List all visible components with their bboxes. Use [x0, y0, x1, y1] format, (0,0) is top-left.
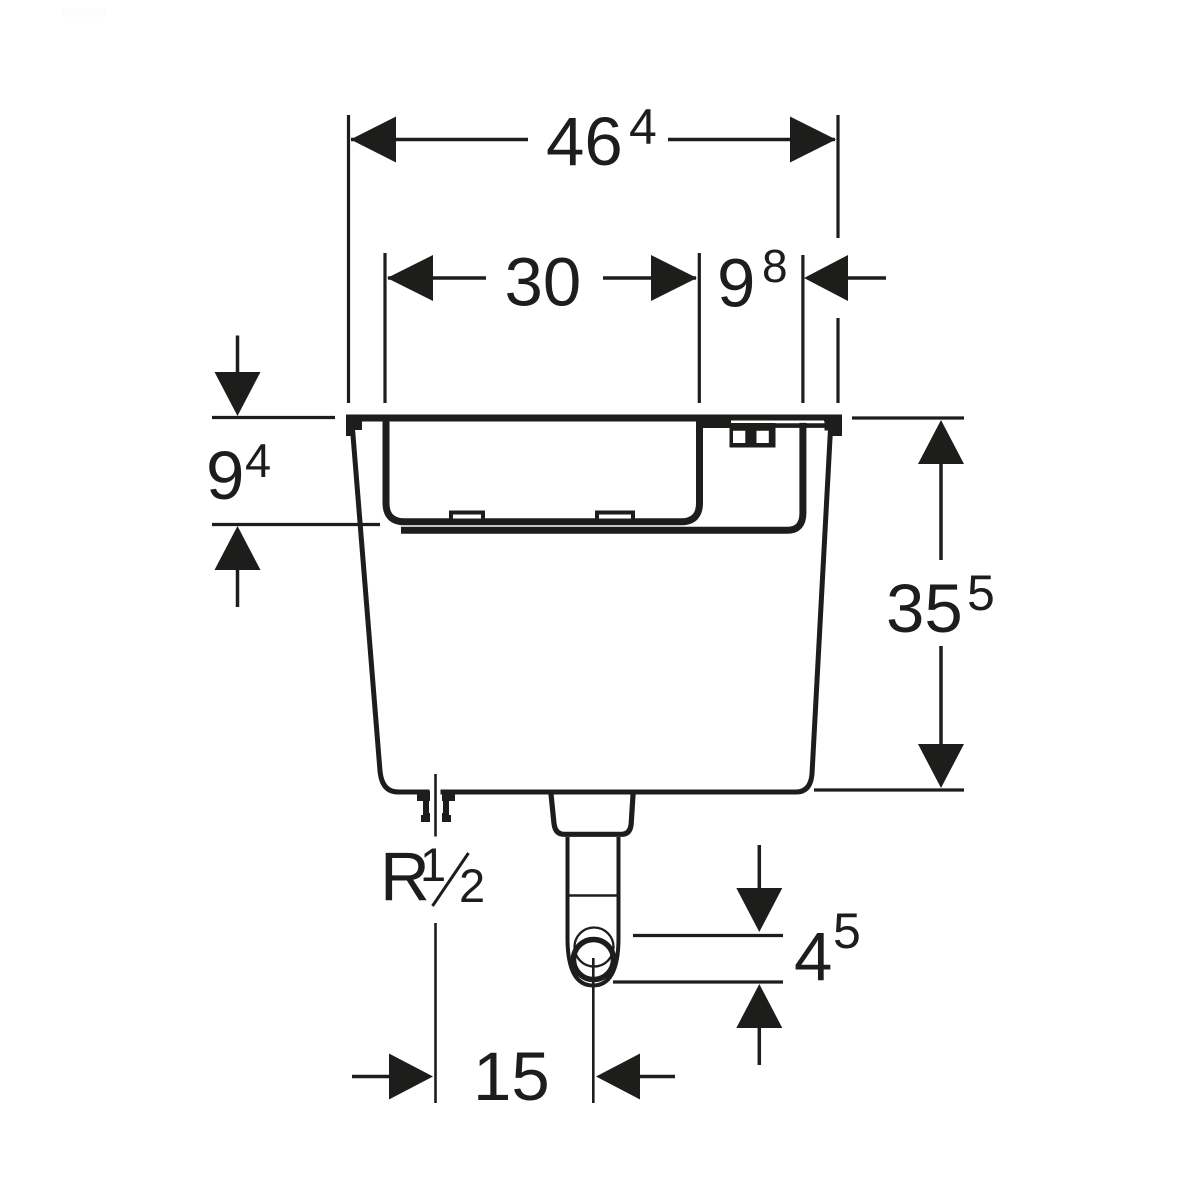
under-lid lower line right: [731, 423, 829, 428]
dimension line 30 left tail: [388, 276, 486, 280]
lid right end cap: [825, 421, 843, 436]
reference line 35.5 top: [852, 416, 964, 419]
slash of R1/2: [433, 853, 469, 906]
arrowhead 9.8 right (pointing left): [804, 255, 848, 301]
dimension line 15 left tail: [352, 1075, 389, 1079]
arrowhead 9.4 up: [215, 526, 261, 570]
dimension 35.5 lower tail: [939, 646, 943, 744]
reference line 9.4 bottom: [212, 523, 380, 526]
extension line right of 30: [698, 253, 701, 403]
extension line right of 9.8: [801, 255, 804, 403]
clip bump right on box bottom: [597, 513, 633, 521]
arrowhead 4.5 up: [736, 984, 782, 1028]
supply stub right: [442, 791, 455, 822]
extension line left of 46.4: [347, 115, 350, 403]
outlet inner circle thin: [575, 928, 614, 967]
filling valve bracket: [730, 423, 776, 448]
supply centerline lower segment: [434, 923, 437, 1103]
svg-text:9: 9: [717, 245, 755, 322]
svg-text:8: 8: [762, 240, 788, 292]
svg-text:2: 2: [459, 859, 485, 912]
svg-text:5: 5: [967, 565, 995, 621]
arrowhead 4.5 down: [736, 888, 782, 932]
dimension line 46.4 left tail: [351, 138, 528, 142]
outer tank left wall and bottom left: [353, 429, 430, 792]
outer tank bottom and right wall: [441, 429, 831, 792]
svg-text:1: 1: [420, 838, 446, 891]
outlet neck: [551, 792, 633, 834]
dimension line 30 right tail: [603, 276, 696, 280]
extension line left of 30: [383, 253, 386, 403]
dimension 4.5 upper tail: [758, 845, 762, 888]
reference line 9.4 top: [212, 416, 335, 419]
faint watermark box top-left: [62, 8, 106, 17]
under-lid ceiling block between box wall and bracket: [696, 415, 731, 428]
outlet pipe body: [568, 837, 619, 986]
arrowhead 46.4 right: [790, 117, 836, 163]
arrowhead 35.5 up: [918, 420, 964, 464]
svg-text:46: 46: [546, 103, 623, 180]
svg-text:4: 4: [245, 434, 271, 487]
svg-text:4: 4: [794, 918, 832, 995]
outlet pipe joint line: [566, 894, 620, 897]
lid left end cap: [346, 421, 362, 436]
svg-text:15: 15: [473, 1038, 550, 1115]
svg-text:5: 5: [833, 903, 861, 959]
clip bump left on box bottom: [451, 513, 483, 521]
dimension line 9.8 right tail: [848, 276, 886, 280]
cistern lid: [346, 415, 842, 422]
inner tank bottom plate and right wall: [401, 419, 803, 530]
arrowhead 15 right (pointing left): [596, 1054, 640, 1100]
outlet opening thick circle: [574, 940, 614, 980]
outlet centerline: [592, 958, 595, 1103]
service opening box (flush bell housing): [386, 419, 700, 522]
dimension 9.4 lower arrow tail: [236, 570, 240, 607]
extension line right of 46.4 (lower segment): [836, 318, 839, 403]
dimension 9.4 upper arrow tail: [236, 336, 240, 373]
svg-text:35: 35: [886, 570, 963, 647]
extension line right of 46.4 (upper segment): [836, 115, 839, 238]
dimension line 46.4 right tail: [668, 138, 835, 142]
white sliver under lid right: [731, 421, 824, 423]
arrowhead 46.4 left: [351, 117, 397, 163]
reference line 35.5 bottom: [814, 788, 964, 791]
arrowhead 30 left: [387, 255, 433, 301]
arrowhead 35.5 down: [918, 744, 964, 788]
arrowhead 9.4 down: [215, 372, 261, 416]
dimension 35.5 upper tail: [939, 464, 943, 560]
svg-text:30: 30: [505, 244, 582, 321]
arrowhead 15 left (pointing right): [389, 1054, 433, 1100]
reference line 4.5 top: [633, 934, 783, 937]
supply stub left: [417, 791, 430, 822]
dimension 4.5 lower tail: [758, 1028, 762, 1065]
supply centerline upper segment: [434, 774, 437, 837]
reference line 4.5 bottom: [613, 980, 783, 983]
dimension line 15 right tail: [640, 1075, 675, 1079]
svg-text:4: 4: [629, 99, 657, 155]
arrowhead 30 right: [651, 255, 697, 301]
svg-text:9: 9: [206, 437, 244, 514]
